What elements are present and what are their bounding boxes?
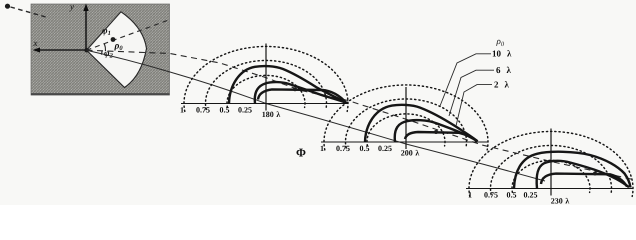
plot3 outer lobe xyxy=(514,152,631,188)
plot3 dashed circle r=1 xyxy=(469,131,633,196)
plot2 outer lobe xyxy=(365,105,478,142)
svg-text:Φ: Φ xyxy=(296,146,306,160)
plot2 flat lobe xyxy=(405,132,478,141)
plot3 dot xyxy=(593,172,597,176)
plot2 dashed circle r=0.75 xyxy=(346,99,467,148)
plot1 baseline xyxy=(181,103,348,105)
long solid axis ray xyxy=(87,50,546,181)
leader 2 lambda xyxy=(456,85,492,126)
y-axis xyxy=(85,10,87,51)
plot3 flat lobe xyxy=(541,174,627,187)
plot2 dashed circle r=0.5 xyxy=(367,114,445,146)
plot1 dashed circle r=0.75 xyxy=(206,60,327,109)
angle arc phi2 xyxy=(100,51,103,55)
focal point dot xyxy=(111,37,116,42)
hatched aperture box xyxy=(31,4,170,95)
plot2 tick labels xyxy=(320,144,392,153)
incident dashed ray xyxy=(11,7,48,17)
svg-text:180 λ: 180 λ xyxy=(262,110,281,119)
plot2 dashed circle r=1 xyxy=(324,85,488,150)
svg-text:10 λ: 10 λ xyxy=(492,49,512,59)
upper dashed ray in box xyxy=(87,20,171,51)
plot3 vertical axis xyxy=(550,129,552,196)
plot3 tick labels xyxy=(468,191,538,200)
x-axis xyxy=(38,49,87,51)
svg-text:0.5: 0.5 xyxy=(220,106,230,115)
leader 10 lambda xyxy=(440,54,491,106)
plot2 vertical axis xyxy=(405,87,407,149)
plot3 dashed circle r=0.5 xyxy=(512,160,590,192)
plot3 dashed circle r=0.75 xyxy=(490,145,611,194)
plot1 dot xyxy=(293,87,297,91)
svg-text:0.5: 0.5 xyxy=(360,144,370,153)
box bottom dark edge xyxy=(31,93,170,95)
svg-text:y: y xyxy=(69,2,74,12)
plot1 flat lobe xyxy=(258,89,346,102)
svg-text:0.25: 0.25 xyxy=(378,144,392,153)
origin dot xyxy=(84,48,88,52)
svg-text:2 λ: 2 λ xyxy=(494,80,510,90)
angle arc phi1 xyxy=(104,44,105,52)
svg-text:0.75: 0.75 xyxy=(484,191,498,200)
svg-text:0.75: 0.75 xyxy=(196,106,210,115)
plot2 middle lobe xyxy=(395,120,478,142)
white fan sector xyxy=(87,12,147,88)
plot1 dashed circle r=0.5 xyxy=(227,75,305,107)
plot1 outer lobe xyxy=(229,66,346,103)
svg-text:1: 1 xyxy=(320,144,324,153)
plot2 baseline xyxy=(321,141,488,143)
plot1 tick labels xyxy=(180,106,252,115)
plot1 dashed circle r=1 xyxy=(184,46,348,111)
plot1 middle lobe xyxy=(255,82,346,103)
long dashed beam ray xyxy=(87,50,634,179)
svg-text:0.75: 0.75 xyxy=(336,144,350,153)
plot2 dot xyxy=(434,130,438,134)
leader 6 lambda xyxy=(449,70,494,116)
svg-text:1: 1 xyxy=(180,106,184,115)
svg-text:0.5: 0.5 xyxy=(507,191,517,200)
svg-text:230 λ: 230 λ xyxy=(551,197,570,206)
plot3 middle lobe xyxy=(537,161,629,188)
y-axis arrowhead xyxy=(83,4,88,12)
svg-text:0.25: 0.25 xyxy=(238,106,252,115)
svg-text:6 λ: 6 λ xyxy=(496,65,512,75)
plot1 vertical axis xyxy=(265,44,267,111)
svg-text:x: x xyxy=(33,38,38,48)
svg-text:1: 1 xyxy=(468,191,472,200)
incident-ray dot (top-left) xyxy=(5,4,10,9)
plot3 baseline xyxy=(466,188,633,190)
svg-text:0.25: 0.25 xyxy=(524,191,538,200)
x-axis arrowhead xyxy=(33,48,41,53)
svg-text:200 λ: 200 λ xyxy=(401,149,420,158)
